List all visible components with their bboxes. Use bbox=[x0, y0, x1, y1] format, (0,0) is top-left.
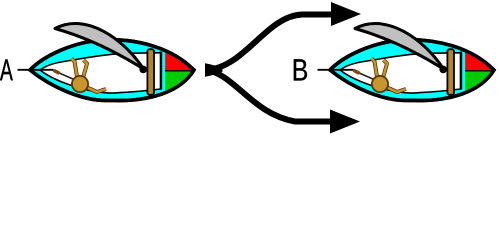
arrow down head bbox=[330, 110, 360, 134]
label B bbox=[294, 59, 307, 80]
arrow up head bbox=[331, 2, 361, 26]
arrow up shaft bbox=[206, 15, 332, 71]
arrow down shaft bbox=[206, 70, 331, 122]
boat A bbox=[18, 23, 198, 104]
fork junction wedge bbox=[205, 63, 223, 77]
boat B (copy) bbox=[318, 23, 498, 104]
label A bbox=[0, 60, 13, 81]
